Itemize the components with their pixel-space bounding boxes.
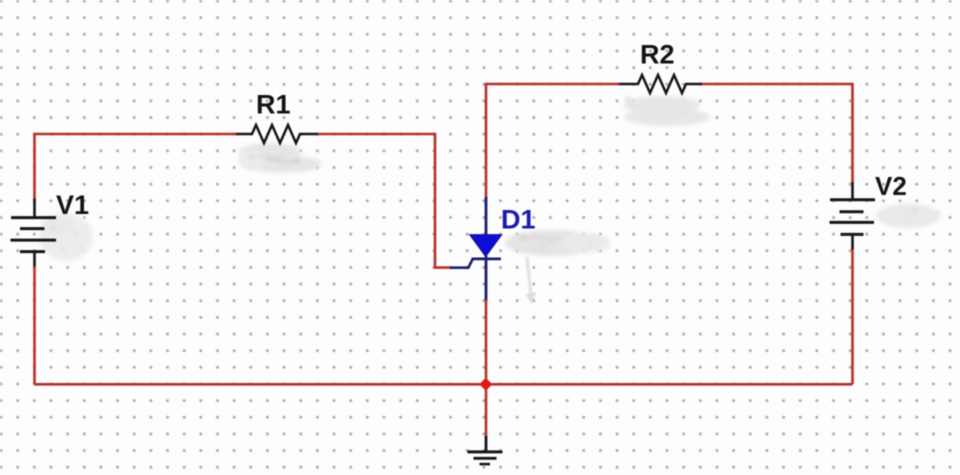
eraser smudge under R2 value <box>624 96 710 126</box>
eraser smudge right of D1 with faint arrow <box>505 230 611 256</box>
wire R2 right to top-right corner down to V2 <box>702 84 853 182</box>
eraser smudge right of V2 value <box>876 204 940 228</box>
svg-text:R1: R1 <box>256 90 291 120</box>
wire middle top: corner above D1 to R2 left <box>486 84 619 198</box>
svg-text:D1: D1 <box>501 205 536 235</box>
wire D1 cathode down to bottom rail and ground stem <box>485 299 488 437</box>
wire R1 right to middle vertical down to SCR gate corner <box>318 134 451 268</box>
svg-text:V2: V2 <box>875 171 907 201</box>
wire V2 bottom vertical <box>851 249 854 384</box>
wire V1 bottom vertical <box>33 266 36 384</box>
resistor R1 <box>236 125 318 143</box>
resistor R2 <box>619 75 702 93</box>
voltage source V2 <box>830 182 876 250</box>
wire V1 top vertical + top-left horizontal to R1 <box>35 134 237 199</box>
junction node at bottom rail <box>479 378 492 391</box>
eraser smudge under R1 value <box>238 143 322 173</box>
svg-text:V1: V1 <box>56 190 89 220</box>
wire bottom horizontal rail <box>35 383 853 386</box>
eraser smudge near V1 value <box>39 213 93 261</box>
ground <box>468 436 503 464</box>
svg-text:R2: R2 <box>640 40 675 70</box>
voltage source V1 <box>11 199 57 267</box>
SCR D1 <box>450 197 502 300</box>
